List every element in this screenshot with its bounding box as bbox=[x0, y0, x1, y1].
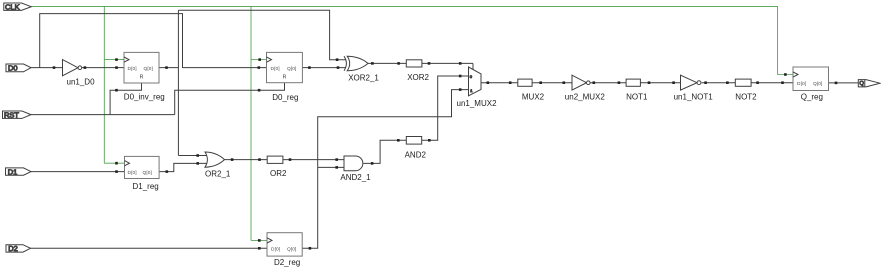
buffer box OR2 bbox=[267, 156, 283, 163]
wire NOT1 output bbox=[640, 82, 680, 84]
output port Q bbox=[858, 80, 880, 87]
svg-text:D2_reg: D2_reg bbox=[274, 258, 300, 267]
svg-text:0: 0 bbox=[470, 74, 473, 79]
buffer box XOR2 bbox=[406, 60, 422, 67]
wire AND2 output to mux bbox=[422, 76, 469, 140]
wire OR2 output bbox=[283, 159, 345, 161]
wire RST net bbox=[31, 83, 285, 115]
input port D1 bbox=[6, 168, 32, 177]
svg-text:XOR2_1: XOR2_1 bbox=[348, 73, 379, 82]
input port RST bbox=[3, 111, 32, 120]
inverter un1_D0 bbox=[63, 60, 82, 76]
input port D2 bbox=[6, 244, 31, 253]
buffer box MUX2 bbox=[518, 79, 532, 86]
svg-text:MUX2: MUX2 bbox=[522, 92, 545, 101]
svg-text:Q[0]: Q[0] bbox=[813, 81, 822, 87]
xor gate XOR2_1 bbox=[344, 56, 368, 71]
wire OR2_1 output bbox=[225, 159, 268, 161]
wire D1 net bbox=[31, 171, 125, 173]
inverter un2_MUX2 bbox=[572, 75, 590, 90]
register Q_reg bbox=[793, 67, 829, 91]
register pin texts bbox=[128, 66, 823, 253]
svg-text:R: R bbox=[283, 75, 287, 81]
instance labels bbox=[67, 73, 823, 267]
svg-text:D2: D2 bbox=[8, 244, 18, 253]
svg-text:un2_MUX2: un2_MUX2 bbox=[565, 92, 606, 101]
wire Q_reg output bbox=[829, 82, 859, 84]
clock net (green) bbox=[31, 6, 793, 240]
svg-text:OR2_1: OR2_1 bbox=[205, 169, 231, 178]
svg-text:Q[0]: Q[0] bbox=[287, 247, 296, 253]
wire XOR2_1 output bbox=[368, 62, 406, 64]
buffer box NOT1 bbox=[626, 79, 640, 86]
wire NOT2 output bbox=[751, 82, 793, 84]
svg-text:D[0]: D[0] bbox=[128, 170, 137, 176]
svg-text:AND2_1: AND2_1 bbox=[340, 173, 371, 182]
svg-text:D1_reg: D1_reg bbox=[133, 182, 159, 191]
svg-text:NOT1: NOT1 bbox=[626, 92, 648, 101]
svg-text:Q[0]: Q[0] bbox=[143, 170, 152, 176]
svg-text:Q: Q bbox=[859, 81, 864, 87]
register D2_reg bbox=[267, 233, 302, 256]
wire MUX2 output bbox=[532, 82, 572, 84]
svg-text:RST: RST bbox=[4, 111, 19, 120]
wire AND2_1 output bbox=[363, 140, 406, 163]
inverter un1_NOT1 bbox=[681, 75, 701, 90]
buffer box NOT2 bbox=[735, 79, 751, 86]
svg-text:CLK: CLK bbox=[5, 2, 20, 11]
and gate AND2_1 bbox=[344, 156, 363, 171]
svg-text:D[0]: D[0] bbox=[128, 66, 137, 72]
svg-text:D[0]: D[0] bbox=[271, 66, 280, 72]
wire un2_MUX2 output bbox=[590, 82, 626, 84]
svg-text:D0_reg: D0_reg bbox=[272, 93, 298, 102]
svg-text:Q[0]: Q[0] bbox=[144, 66, 153, 72]
svg-text:D0_inv_reg: D0_inv_reg bbox=[124, 93, 165, 102]
wire un1_NOT1 output bbox=[702, 82, 736, 84]
wire XOR2 output to mux select bbox=[422, 63, 473, 69]
svg-text:un1_NOT1: un1_NOT1 bbox=[674, 93, 714, 102]
svg-text:Q_reg: Q_reg bbox=[801, 93, 823, 102]
mux un1_MUX2 bbox=[469, 67, 482, 96]
register D1_reg bbox=[125, 156, 160, 178]
wire D2 net bbox=[31, 247, 268, 249]
svg-text:D0: D0 bbox=[8, 64, 18, 73]
svg-text:D[0]: D[0] bbox=[271, 247, 280, 253]
svg-text:AND2: AND2 bbox=[405, 151, 427, 160]
wire D2_reg output net bbox=[302, 90, 468, 249]
svg-text:D[0]: D[0] bbox=[797, 81, 806, 87]
input port D0 bbox=[6, 64, 31, 73]
register D0_inv_reg bbox=[124, 52, 159, 83]
svg-text:D1: D1 bbox=[8, 168, 18, 177]
wire D0_inv_reg output net bbox=[159, 10, 346, 155]
wire un1_D0 output bbox=[82, 67, 124, 69]
svg-text:NOT2: NOT2 bbox=[735, 92, 757, 101]
wire D0 net bbox=[31, 14, 267, 68]
svg-text:1: 1 bbox=[470, 88, 473, 93]
wire D0_reg output bbox=[302, 67, 346, 69]
pin dots bbox=[53, 58, 838, 249]
wire D1_reg output bbox=[159, 163, 207, 171]
or gate OR2_1 bbox=[205, 152, 225, 167]
svg-text:Q[0]: Q[0] bbox=[287, 66, 296, 72]
svg-text:R: R bbox=[140, 74, 144, 80]
svg-text:un1_D0: un1_D0 bbox=[67, 78, 96, 87]
buffer box AND2 bbox=[406, 137, 421, 145]
wire mux output bbox=[481, 82, 518, 84]
svg-text:XOR2: XOR2 bbox=[407, 73, 429, 82]
register D0_reg bbox=[267, 52, 303, 82]
input port CLK bbox=[4, 2, 31, 11]
svg-text:OR2: OR2 bbox=[270, 169, 287, 178]
svg-text:un1_MUX2: un1_MUX2 bbox=[457, 99, 498, 108]
